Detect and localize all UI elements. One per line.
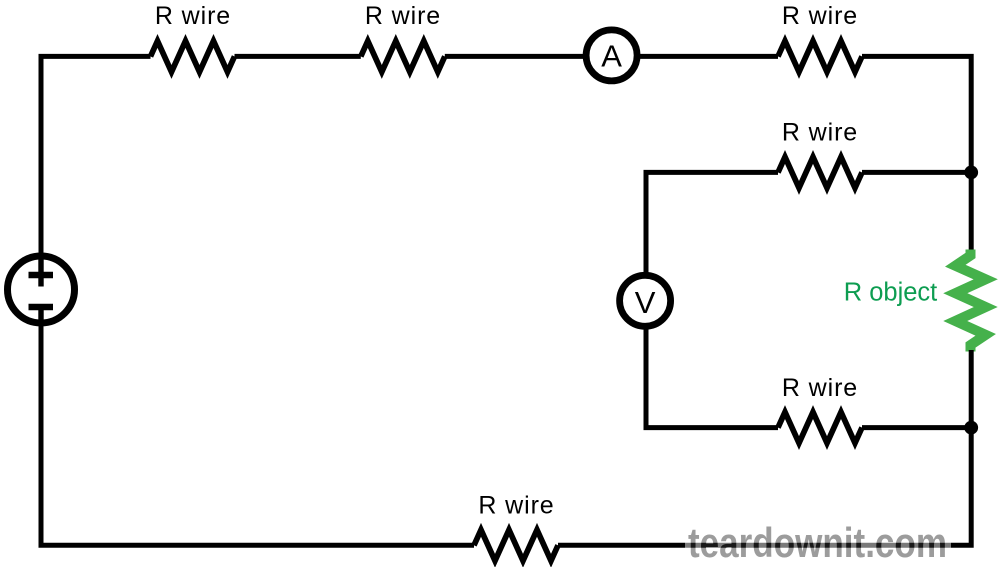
wire: between resistor 1 and resistor 2 bbox=[235, 54, 361, 59]
resistor R wire (top 1) bbox=[151, 41, 235, 72]
wire: between ammeter and resistor 3 bbox=[640, 54, 778, 59]
wire: voltmeter bottom branch bbox=[646, 328, 778, 428]
battery source bbox=[8, 254, 75, 325]
svg-text:R wire: R wire bbox=[782, 2, 858, 30]
node dot upper (sense tap) bbox=[964, 166, 978, 180]
wire: bottom-left segment up to battery bbox=[41, 326, 474, 545]
svg-text:R wire: R wire bbox=[782, 119, 858, 147]
svg-text:R wire: R wire bbox=[365, 2, 441, 30]
ammeter A bbox=[586, 30, 637, 81]
svg-text:R object: R object bbox=[844, 279, 938, 307]
svg-text:R wire: R wire bbox=[782, 374, 858, 402]
svg-text:V: V bbox=[635, 285, 656, 320]
wire: sense top to node bbox=[862, 170, 971, 175]
battery minus terminal wire bbox=[38, 307, 43, 325]
wire: top-left segment from battery top to resistor R wire 1 bbox=[41, 56, 151, 253]
resistor R wire (top 3) bbox=[778, 41, 862, 72]
resistor R wire (sense bottom) bbox=[778, 412, 862, 443]
wire: sense bottom to node bbox=[862, 425, 971, 430]
resistor R object (green) bbox=[955, 250, 985, 352]
wire: right side from R object to bottom-right corner bbox=[558, 350, 971, 545]
battery plus bar bbox=[29, 272, 54, 279]
voltmeter V bbox=[620, 275, 671, 326]
svg-text:R wire: R wire bbox=[478, 492, 554, 520]
svg-text:R wire: R wire bbox=[155, 2, 231, 30]
svg-text:A: A bbox=[601, 39, 622, 74]
wire: between resistor 2 and ammeter bbox=[445, 54, 590, 59]
battery plus terminal wire bbox=[38, 254, 43, 287]
resistor R wire (bottom) bbox=[474, 530, 558, 561]
wire: top-right corner down to R object bbox=[862, 56, 971, 252]
resistor R wire (top 2) bbox=[361, 41, 445, 72]
wire: voltmeter top branch bbox=[646, 172, 778, 273]
battery minus bar bbox=[29, 304, 54, 311]
resistor R wire (sense top) bbox=[778, 157, 862, 188]
watermark teardownit.com bbox=[685, 519, 951, 566]
svg-text:teardownit.com: teardownit.com bbox=[688, 519, 947, 566]
node dot lower (sense tap) bbox=[964, 421, 978, 435]
